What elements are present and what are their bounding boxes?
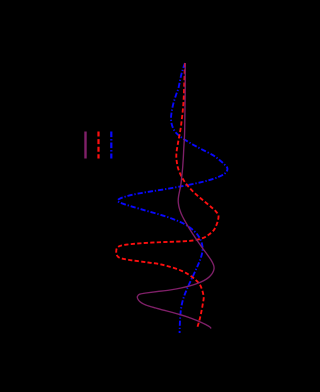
- blue dash-dot curve: [118, 63, 228, 333]
- purple solid curve: [137, 63, 214, 329]
- legend red dashed line: [97, 132, 99, 159]
- legend purple solid line: [84, 132, 86, 159]
- legend blue dash-dot line: [110, 132, 112, 159]
- red dashed curve: [116, 63, 218, 328]
